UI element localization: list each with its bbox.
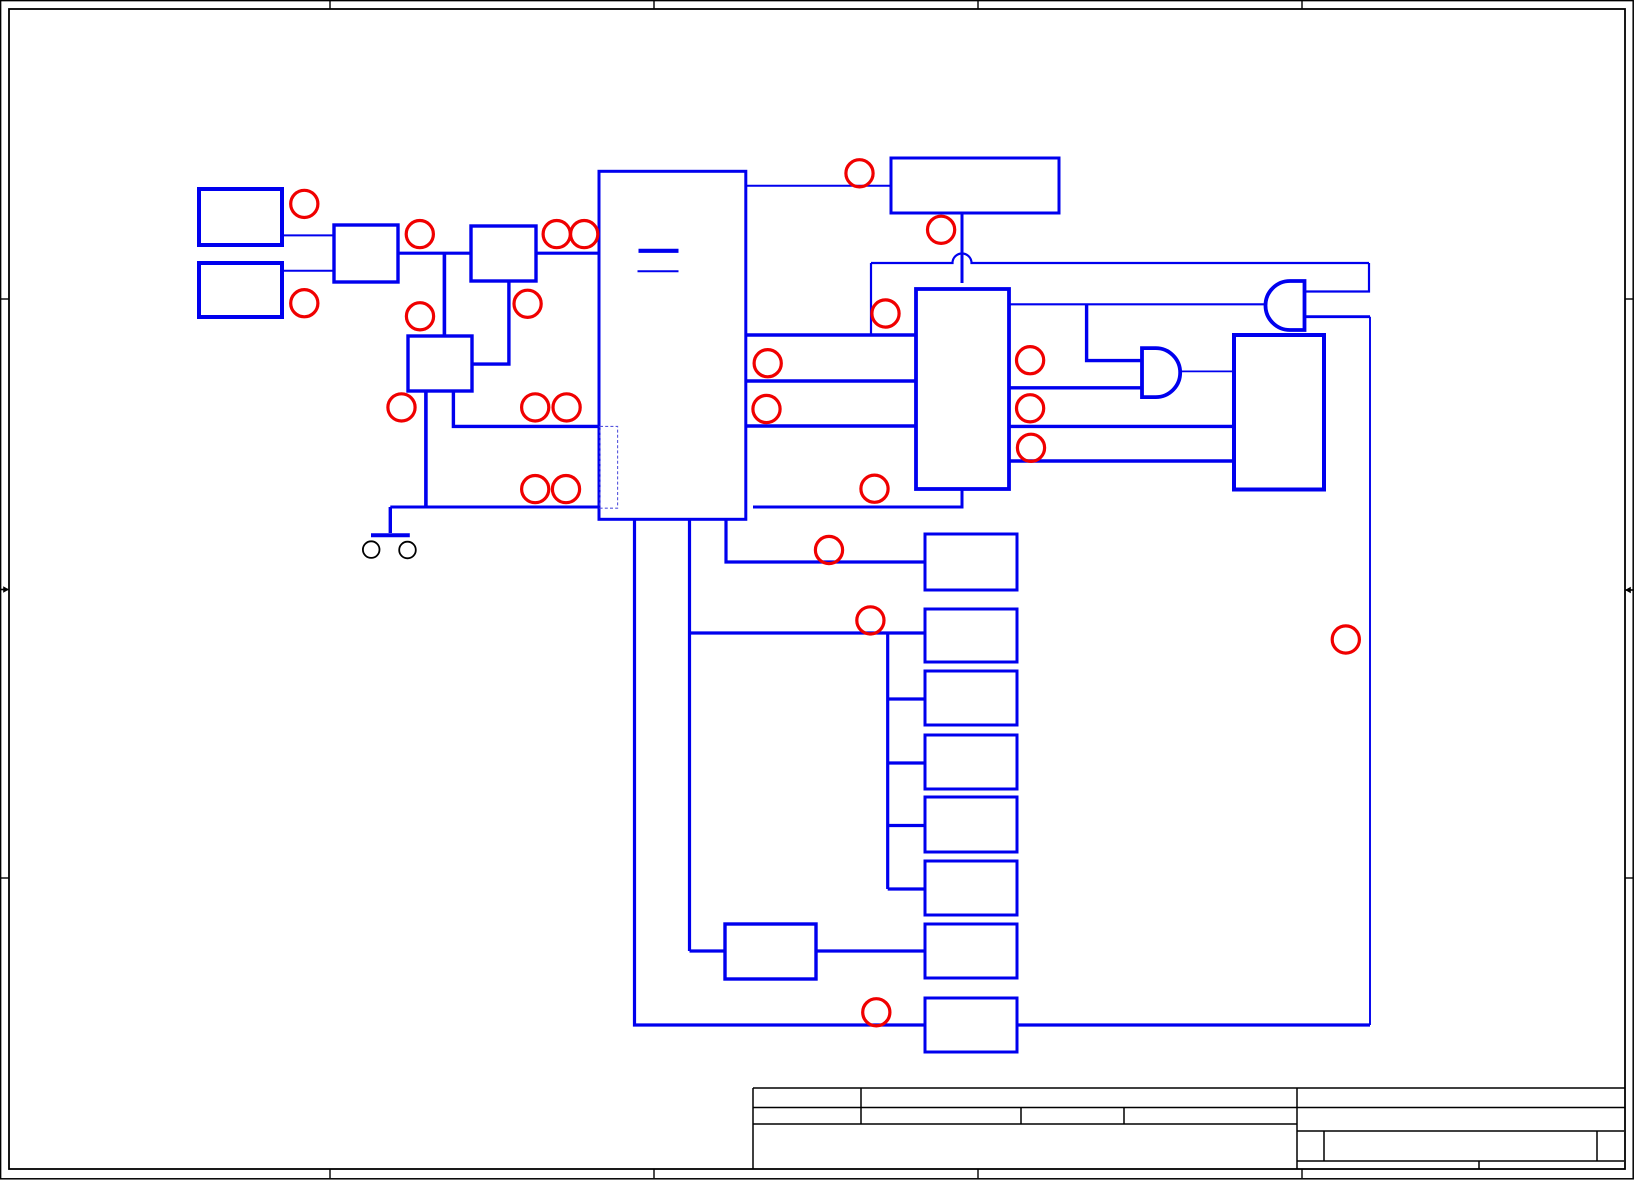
black circle pad 2 xyxy=(399,542,416,559)
title block bottom strip divider x1479 xyxy=(1478,1161,1480,1169)
node mark 10 xyxy=(553,394,580,421)
title block section divider x1297 xyxy=(1296,1088,1298,1169)
box E xyxy=(925,797,1017,852)
wire main block to box7 xyxy=(746,185,891,187)
zone tick left 1 xyxy=(1,298,9,300)
wire box4 to main block xyxy=(536,252,599,255)
wire branch to boxC xyxy=(888,697,925,700)
wire box5 bottom right drop to net xyxy=(453,391,599,426)
wire feedback elbow down xyxy=(870,263,872,335)
box C xyxy=(925,671,1017,725)
black circle pad 1 xyxy=(363,541,380,558)
wire main block bottom drop x727 to boxA xyxy=(726,519,925,562)
zone tick top 1 xyxy=(329,1,331,9)
wire long right vertical xyxy=(1369,317,1371,1025)
box U7 top right xyxy=(891,158,1059,213)
box G xyxy=(925,924,1017,978)
wire net y507 to main block xyxy=(390,506,599,509)
box U4 xyxy=(471,226,536,281)
dashed selection rect on main block xyxy=(600,426,618,508)
zone tick bottom 2 xyxy=(653,1169,655,1178)
wire boxH right to long vertical xyxy=(1017,1023,1370,1026)
wire AND1 input B xyxy=(1305,315,1371,318)
wire box3 to box4 with junction xyxy=(398,252,471,255)
wire junction drop to box5 top xyxy=(443,253,447,336)
center arrow left edge xyxy=(0,586,9,593)
title block left edge xyxy=(752,1088,754,1169)
wire box2 to box3 xyxy=(282,270,334,272)
title block divider x1124 xyxy=(1123,1108,1125,1125)
wire small box right to boxG xyxy=(816,949,925,952)
box A xyxy=(925,534,1017,590)
AND gate U11 (points right) xyxy=(1142,348,1180,397)
title block top edge xyxy=(753,1087,1625,1089)
title block right divider x1597 xyxy=(1596,1131,1598,1161)
node mark 4 xyxy=(543,221,570,248)
ground stem xyxy=(389,507,392,533)
wire main block bottom drop x634 long xyxy=(635,519,926,1025)
node mark 25 xyxy=(1332,626,1359,653)
wire main block to box8 pin3 xyxy=(746,424,916,427)
equals mark thick xyxy=(639,249,679,253)
node mark 24 xyxy=(863,999,890,1026)
box K small xyxy=(725,924,816,979)
wire box8 to box9 pin2 xyxy=(1009,425,1233,428)
red highlight circles xyxy=(291,160,1360,1026)
title block right row line 3 xyxy=(1297,1160,1624,1162)
wire main block to box8 pin1 xyxy=(746,333,916,336)
zone tick right 2 xyxy=(1625,877,1633,879)
node mark 22 xyxy=(815,536,842,563)
center arrow right edge xyxy=(1625,587,1634,594)
zone tick top 4 xyxy=(1301,1,1303,9)
title block divider x861 xyxy=(860,1088,862,1124)
wire main block to box8 pin2 xyxy=(746,379,916,382)
box H xyxy=(925,998,1017,1052)
wire feedback top with hop xyxy=(871,254,1369,264)
wire box4 bottom stub xyxy=(472,281,509,364)
node mark 14 xyxy=(928,216,955,243)
node mark 11 xyxy=(522,476,549,503)
zone tick top 2 xyxy=(653,1,655,9)
node mark 21 xyxy=(1017,434,1044,461)
box IN2 xyxy=(199,263,282,317)
zone tick right 1 xyxy=(1625,298,1633,300)
wire AND2 output to box9 xyxy=(1180,370,1233,372)
box U3 xyxy=(334,225,398,282)
box IN1 xyxy=(199,189,282,245)
wire branch to boxF xyxy=(888,887,925,890)
node mark 5 xyxy=(571,221,598,248)
node mark 8 xyxy=(388,394,415,421)
box U8 xyxy=(916,289,1009,489)
zone tick bottom 4 xyxy=(1301,1169,1303,1178)
node mark 18 xyxy=(861,475,888,502)
wire bus vertical x887 xyxy=(886,633,889,889)
wire box7 bottom stub xyxy=(961,213,964,283)
box U5 xyxy=(408,336,472,391)
box B xyxy=(925,609,1017,662)
title block xyxy=(753,1088,1625,1169)
node mark 3 xyxy=(406,221,433,248)
zone tick top 3 xyxy=(977,1,979,9)
box D xyxy=(925,735,1017,789)
equals mark thin xyxy=(638,270,679,272)
node mark 19 xyxy=(1017,347,1044,374)
wire box8 to AND2 input B xyxy=(1009,386,1142,389)
node mark 23 xyxy=(857,607,884,634)
title block row line 1 xyxy=(753,1107,1625,1109)
wire branch to boxE xyxy=(888,824,925,827)
title block divider x1021 xyxy=(1020,1108,1022,1125)
zone tick left 2 xyxy=(1,877,9,879)
node mark 13 xyxy=(846,160,873,187)
ground bar xyxy=(371,533,410,537)
wire box8 to box9 pin3 xyxy=(1009,459,1233,462)
node mark 2 xyxy=(291,290,318,317)
title block row line 2 left xyxy=(753,1123,1297,1125)
wire main block bottom drop x689 xyxy=(688,519,691,951)
AND gate U10 (points left) xyxy=(1266,281,1305,330)
wire small box to boxG xyxy=(690,949,726,952)
wire branch y633 to boxB xyxy=(690,631,926,634)
box U9 xyxy=(1234,335,1324,490)
node mark 20 xyxy=(1017,395,1044,422)
node mark 9 xyxy=(522,394,549,421)
node mark 6 xyxy=(514,290,541,317)
zone tick bottom 3 xyxy=(977,1169,979,1178)
node mark 12 xyxy=(552,476,579,503)
wire box1 to box3 xyxy=(282,234,334,236)
node mark 7 xyxy=(406,303,433,330)
title block right divider x1324 xyxy=(1323,1131,1325,1161)
wire AND1 input A elbow xyxy=(1305,263,1370,292)
wire box5 bottom left drop xyxy=(424,391,428,507)
wire branch to boxD xyxy=(888,761,925,764)
wire drop to AND2 input A xyxy=(1087,304,1142,360)
node mark 16 xyxy=(754,350,781,377)
box F xyxy=(925,861,1017,915)
node mark 17 xyxy=(753,395,780,422)
wire lower to box8 bottom stub xyxy=(753,489,962,507)
node mark 1 xyxy=(291,190,318,217)
main block U6 xyxy=(599,171,746,519)
node mark 15 xyxy=(872,300,899,327)
zone tick bottom 1 xyxy=(329,1169,331,1178)
wire box8 right to AND1 output xyxy=(1009,303,1267,305)
title block right row line 2 xyxy=(1297,1130,1624,1132)
